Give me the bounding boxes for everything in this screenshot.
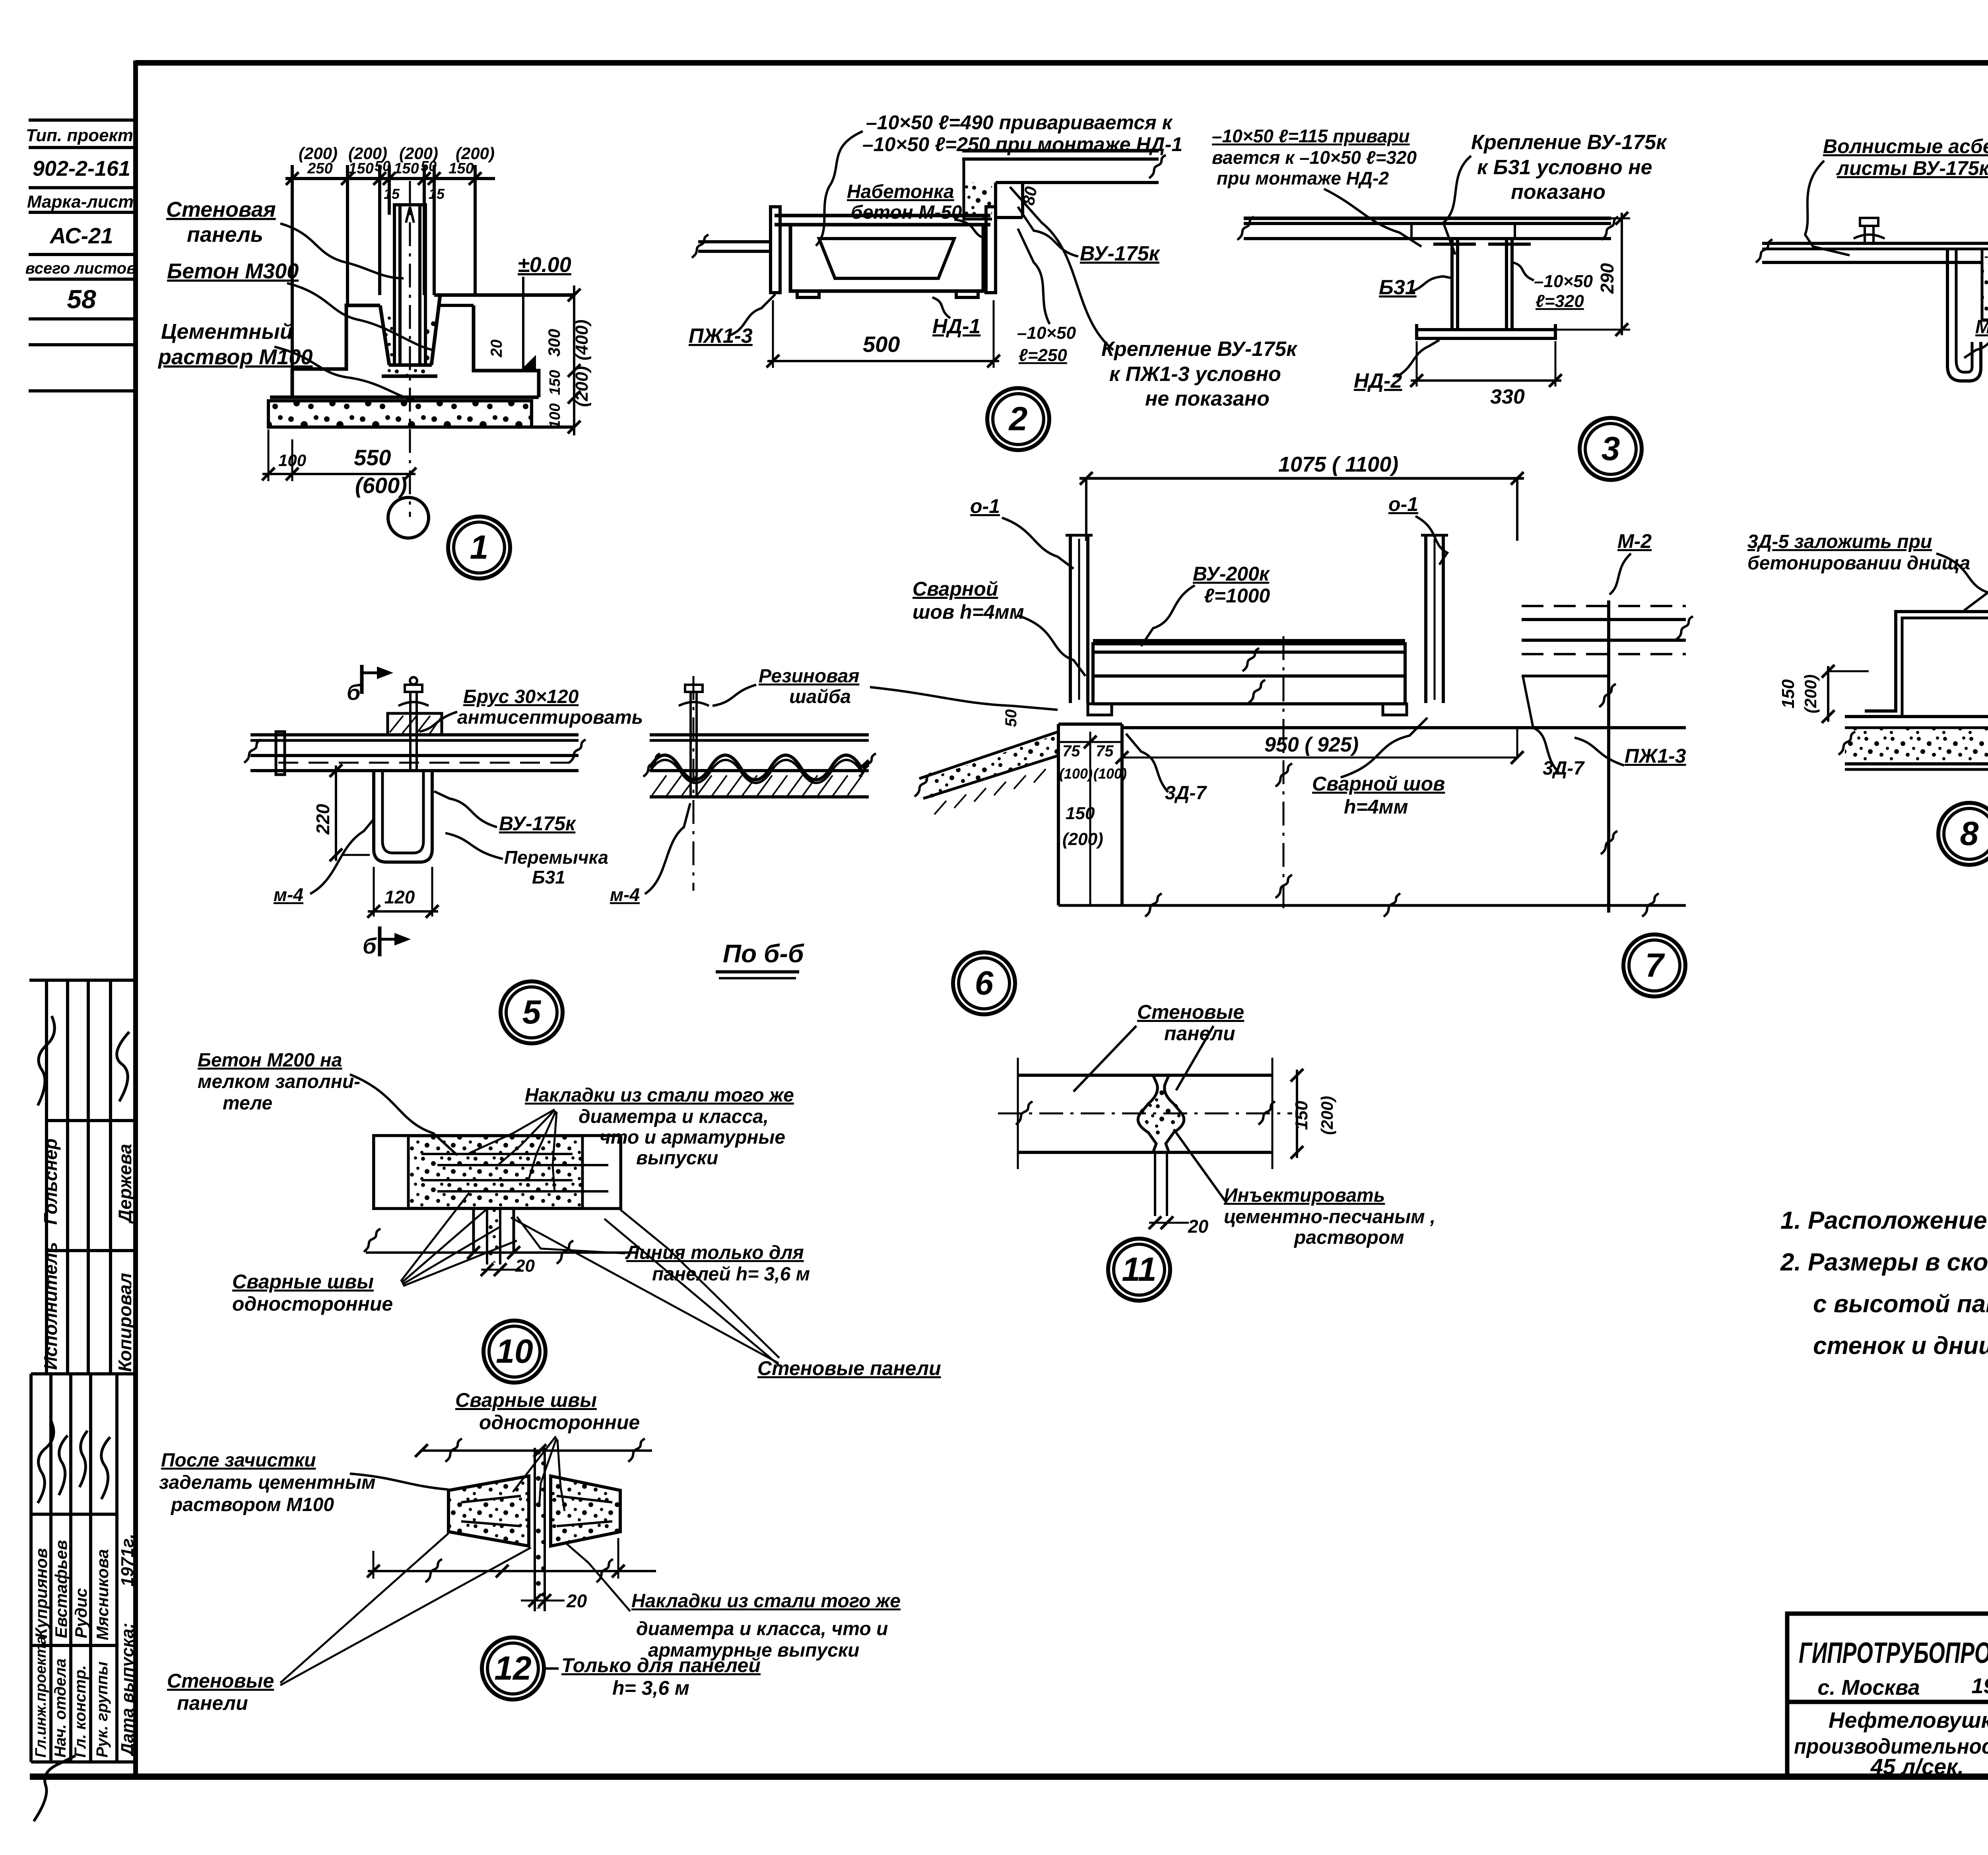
svg-text:цементно-песчаным ,: цементно-песчаным , — [1224, 1206, 1435, 1228]
svg-text:3Д-7: 3Д-7 — [1543, 758, 1585, 779]
svg-text:что и арматурные: что и арматурные — [600, 1127, 785, 1148]
svg-text:(200): (200) — [456, 144, 495, 163]
svg-text:показано: показано — [1511, 181, 1606, 204]
svg-text:с высотой панелей h= 3,6 м: с высотой панелей h= 3,6 м и толщиной — [1813, 1290, 1988, 1318]
svg-text:150: 150 — [348, 160, 373, 177]
svg-text:Сварные швы: Сварные швы — [455, 1389, 597, 1411]
svg-text:листы ВУ-175к ГОСТ 8423-57: листы ВУ-175к ГОСТ 8423-57 — [1836, 157, 1988, 179]
svg-text:ВУ-175к: ВУ-175к — [499, 812, 577, 835]
svg-text:5: 5 — [522, 993, 542, 1031]
svg-text:2: 2 — [1008, 400, 1028, 437]
svg-text:ℓ=250: ℓ=250 — [1019, 346, 1067, 365]
svg-text:Гл.инж.проекта: Гл.инж.проекта — [33, 1636, 49, 1758]
svg-text:250: 250 — [307, 160, 332, 177]
svg-text:(200): (200) — [1062, 829, 1103, 849]
svg-text:Стеновые панели: Стеновые панели — [757, 1357, 941, 1379]
svg-text:шов h=4мм: шов h=4мм — [912, 601, 1024, 623]
svg-text:Волнистые асбестоцементные: Волнистые асбестоцементные — [1823, 135, 1988, 157]
svg-text:всего листов: всего листов — [25, 260, 136, 277]
svg-text:о-1: о-1 — [970, 495, 1000, 517]
svg-text:±0.00: ±0.00 — [518, 253, 571, 277]
svg-text:Сварные швы: Сварные швы — [232, 1270, 374, 1293]
svg-text:150: 150 — [394, 160, 419, 177]
svg-text:диаметра и класса,: диаметра и класса, — [579, 1106, 769, 1127]
svg-text:h= 3,6 м: h= 3,6 м — [612, 1677, 689, 1699]
svg-text:АС-21: АС-21 — [49, 223, 113, 248]
svg-text:Исполнитель: Исполнитель — [40, 1242, 61, 1370]
svg-text:(200): (200) — [1318, 1096, 1336, 1135]
svg-text:330: 330 — [1490, 385, 1525, 408]
svg-text:15: 15 — [429, 186, 445, 202]
svg-text:ПЖ1-3: ПЖ1-3 — [1625, 745, 1686, 767]
svg-text:Бетон М300: Бетон М300 — [167, 259, 299, 283]
svg-text:ГИПРОТРУБОПРОВОД: ГИПРОТРУБОПРОВОД — [1799, 1636, 1988, 1669]
svg-text:Б31: Б31 — [1379, 276, 1417, 299]
svg-text:Гл. констр.: Гл. констр. — [72, 1665, 89, 1758]
svg-text:б: б — [347, 680, 361, 705]
svg-text:Стеновые: Стеновые — [1137, 1001, 1244, 1023]
svg-text:(200): (200) — [299, 144, 338, 163]
svg-text:3Д-5 заложить при: 3Д-5 заложить при — [1747, 531, 1932, 552]
svg-text:8: 8 — [1960, 815, 1979, 852]
svg-text:Перемычка: Перемычка — [504, 847, 608, 868]
svg-text:Б31: Б31 — [532, 867, 565, 888]
svg-text:150: 150 — [1292, 1101, 1311, 1130]
svg-text:мелком заполни-: мелком заполни- — [198, 1071, 360, 1092]
svg-text:панель: панель — [187, 223, 263, 247]
svg-text:После зачистки: После зачистки — [161, 1450, 316, 1471]
svg-text:80: 80 — [1019, 185, 1041, 206]
svg-text:ВУ-175к: ВУ-175к — [1080, 242, 1161, 265]
svg-text:45 л/сек.: 45 л/сек. — [1870, 1754, 1964, 1779]
svg-text:стенок и днища 200мм.: стенок и днища 200мм. — [1813, 1332, 1988, 1360]
svg-text:100: 100 — [278, 451, 306, 470]
svg-text:Марка-лист: Марка-лист — [27, 192, 134, 212]
svg-text:Только для панелей: Только для панелей — [561, 1654, 761, 1676]
svg-text:150: 150 — [1066, 804, 1095, 823]
svg-text:50: 50 — [375, 158, 390, 174]
svg-text:Сварной шов: Сварной шов — [1312, 773, 1445, 795]
svg-text:12: 12 — [494, 1649, 531, 1687]
svg-text:ℓ=320: ℓ=320 — [1536, 291, 1584, 311]
svg-text:220: 220 — [313, 804, 333, 835]
svg-text:Инъектировать: Инъектировать — [1224, 1185, 1385, 1206]
svg-text:НД-1: НД-1 — [932, 315, 980, 338]
svg-text:Копировал: Копировал — [115, 1273, 135, 1372]
svg-text:раствор М100: раствор М100 — [157, 345, 313, 369]
svg-text:Евстафьев: Евстафьев — [52, 1540, 70, 1638]
svg-text:М-2: М-2 — [1617, 530, 1652, 552]
svg-text:с. Москва: с. Москва — [1817, 1676, 1920, 1700]
svg-text:выпуски: выпуски — [636, 1148, 718, 1169]
svg-text:м-4: м-4 — [610, 884, 640, 905]
svg-text:(100): (100) — [1059, 765, 1093, 782]
svg-text:Дата выпуска:: Дата выпуска: — [118, 1623, 137, 1757]
svg-text:290: 290 — [1597, 263, 1617, 294]
svg-text:бетон М-50: бетон М-50 — [851, 202, 962, 223]
svg-text:Бетон М200 на: Бетон М200 на — [198, 1050, 342, 1071]
svg-text:100: 100 — [547, 403, 563, 428]
svg-text:500: 500 — [863, 332, 900, 357]
svg-text:50: 50 — [1002, 709, 1020, 727]
svg-text:панелей h= 3,6 м: панелей h= 3,6 м — [652, 1264, 810, 1285]
svg-text:–10×50: –10×50 — [1534, 272, 1593, 291]
svg-text:1971г.: 1971г. — [1971, 1674, 1988, 1698]
svg-text:панели: панели — [177, 1692, 248, 1714]
svg-text:–10×50 ℓ=115 привари: –10×50 ℓ=115 привари — [1212, 126, 1410, 146]
svg-text:Резиновая: Резиновая — [759, 666, 860, 687]
svg-text:Нач. отдела: Нач. отдела — [52, 1659, 69, 1758]
svg-text:к Б31 условно не: к Б31 условно не — [1477, 156, 1652, 179]
svg-text:6: 6 — [975, 964, 994, 1002]
svg-text:Брус 30×120: Брус 30×120 — [463, 686, 579, 707]
svg-text:Нефтеловушки: Нефтеловушки — [1829, 1707, 1988, 1733]
svg-text:Накладки из стали того же: Накладки из стали того же — [631, 1591, 901, 1612]
svg-text:20: 20 — [488, 340, 505, 358]
svg-text:о-1: о-1 — [1388, 493, 1418, 515]
svg-text:1: 1 — [470, 528, 489, 566]
svg-text:б: б — [363, 933, 377, 958]
svg-text:(200): (200) — [572, 366, 592, 407]
svg-text:–10×50 ℓ=250 при монтаже НД-: –10×50 ℓ=250 при монтаже НД-1 — [862, 133, 1182, 155]
svg-text:Стеновая: Стеновая — [166, 198, 276, 221]
svg-text:Мясникова: Мясникова — [93, 1549, 112, 1640]
svg-text:антисептировать: антисептировать — [457, 707, 643, 728]
svg-text:3: 3 — [1602, 430, 1620, 467]
svg-text:Держева: Держева — [115, 1144, 135, 1224]
svg-text:Гольснер: Гольснер — [40, 1138, 61, 1225]
svg-text:Линия только для: Линия только для — [625, 1242, 804, 1263]
svg-text:150: 150 — [1778, 679, 1798, 709]
svg-text:(100): (100) — [1093, 765, 1127, 782]
svg-text:950 ( 925): 950 ( 925) — [1264, 733, 1359, 756]
svg-text:150: 150 — [547, 370, 563, 395]
svg-text:ℓ=1000: ℓ=1000 — [1204, 585, 1270, 607]
svg-text:односторонние: односторонние — [479, 1411, 640, 1433]
svg-text:бетонировании днища: бетонировании днища — [1747, 553, 1970, 574]
svg-text:раствором: раствором — [1293, 1227, 1404, 1248]
svg-text:–10×50: –10×50 — [1017, 323, 1076, 343]
svg-text:Цементный: Цементный — [161, 320, 293, 344]
svg-text:75: 75 — [1096, 742, 1114, 760]
svg-text:раствором М100: раствором М100 — [170, 1494, 334, 1515]
svg-text:2. Размеры в скобках относ: 2. Размеры в скобках относятся к нефтело… — [1780, 1249, 1988, 1276]
svg-text:шайба: шайба — [789, 686, 851, 707]
svg-text:Куприянов: Куприянов — [32, 1548, 50, 1638]
svg-text:–10×50 ℓ=490 приваривается к: –10×50 ℓ=490 приваривается к — [866, 111, 1173, 134]
svg-text:Крепление ВУ-175к: Крепление ВУ-175к — [1101, 338, 1298, 361]
svg-text:150: 150 — [448, 160, 474, 177]
svg-text:300: 300 — [545, 329, 563, 357]
svg-text:М-1: М-1 — [1975, 317, 1988, 338]
svg-text:Стеновые: Стеновые — [167, 1670, 274, 1692]
svg-text:1075 ( 1100): 1075 ( 1100) — [1278, 453, 1398, 476]
svg-text:3Д-7: 3Д-7 — [1165, 783, 1207, 804]
svg-text:75: 75 — [1062, 742, 1080, 760]
svg-text:11: 11 — [1122, 1251, 1156, 1288]
svg-text:120: 120 — [384, 887, 415, 907]
svg-text:заделать цементным: заделать цементным — [159, 1472, 375, 1493]
svg-text:50: 50 — [421, 158, 437, 174]
svg-text:20: 20 — [1188, 1216, 1209, 1237]
svg-text:односторонние: односторонние — [232, 1293, 393, 1315]
svg-text:7: 7 — [1645, 946, 1665, 984]
svg-text:15: 15 — [384, 186, 400, 202]
svg-text:при монтаже НД-2: при монтаже НД-2 — [1217, 168, 1389, 188]
svg-text:теле: теле — [223, 1093, 272, 1114]
svg-text:Набетонка: Набетонка — [847, 181, 954, 202]
svg-text:панели: панели — [1164, 1022, 1235, 1045]
svg-text:Рук. группы: Рук. группы — [93, 1662, 111, 1758]
svg-text:(400): (400) — [572, 320, 592, 361]
svg-text:20: 20 — [566, 1591, 587, 1611]
svg-text:м-4: м-4 — [274, 884, 303, 905]
svg-text:к ПЖ1-3 условно: к ПЖ1-3 условно — [1109, 363, 1281, 386]
svg-text:ВУ-200к: ВУ-200к — [1193, 563, 1270, 585]
svg-text:1. Расположение узлов см.: 1. Расположение узлов см. лист АС-19 — [1780, 1207, 1988, 1234]
svg-text:1971г.: 1971г. — [118, 1534, 137, 1587]
svg-text:диаметра и класса, что и: диаметра и класса, что и — [636, 1618, 888, 1639]
svg-text:(200): (200) — [1801, 674, 1820, 713]
svg-text:НД-2: НД-2 — [1354, 369, 1402, 392]
svg-text:ПЖ1-3: ПЖ1-3 — [689, 324, 753, 348]
svg-text:вается к –10×50 ℓ=320: вается к –10×50 ℓ=320 — [1212, 147, 1417, 168]
svg-text:58: 58 — [67, 284, 96, 314]
svg-text:не показано: не показано — [1145, 387, 1270, 410]
svg-text:h=4мм: h=4мм — [1344, 796, 1408, 818]
svg-text:Крепление ВУ-175к: Крепление ВУ-175к — [1471, 131, 1668, 154]
svg-text:Сварной: Сварной — [912, 578, 998, 600]
svg-text:550: 550 — [354, 445, 391, 470]
svg-text:10: 10 — [496, 1332, 533, 1370]
svg-text:(600): (600) — [355, 473, 407, 498]
svg-text:902-2-161: 902-2-161 — [33, 157, 130, 181]
svg-text:Тип. проект: Тип. проект — [26, 126, 133, 145]
svg-text:Рудис: Рудис — [72, 1588, 90, 1638]
svg-text:По б-б: По б-б — [723, 939, 805, 968]
svg-text:20: 20 — [515, 1256, 535, 1276]
svg-text:Накладки из стали того же: Накладки из стали того же — [525, 1085, 794, 1106]
